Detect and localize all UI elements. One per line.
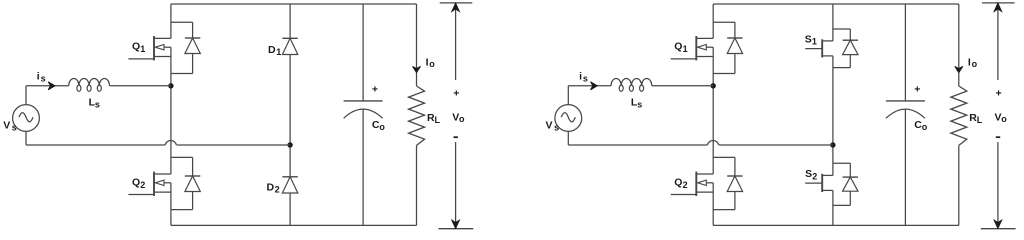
svg-text:2: 2 (275, 185, 280, 195)
svg-text:L: L (435, 115, 441, 125)
svg-text:S: S (805, 33, 812, 45)
svg-text:D: D (268, 44, 276, 56)
svg-text:Q: Q (132, 177, 140, 189)
svg-text:i: i (37, 70, 40, 82)
svg-text:2: 2 (812, 171, 817, 181)
svg-text:s: s (95, 100, 100, 110)
svg-text:+: + (453, 88, 459, 100)
svg-text:+: + (372, 84, 378, 96)
svg-text:1: 1 (276, 47, 281, 57)
svg-text:S: S (805, 168, 812, 180)
svg-text:Q: Q (674, 177, 682, 189)
svg-text:V: V (3, 120, 10, 132)
svg-text:o: o (1001, 114, 1007, 124)
svg-text:L: L (977, 115, 983, 125)
svg-text:V: V (546, 120, 553, 132)
svg-text:Q: Q (132, 41, 140, 53)
svg-text:D: D (267, 182, 275, 194)
svg-text:s: s (41, 74, 46, 84)
svg-text:2: 2 (683, 180, 688, 190)
svg-text:s: s (637, 100, 642, 110)
svg-text:o: o (429, 59, 435, 69)
svg-text:o: o (922, 122, 928, 132)
svg-text:+: + (996, 88, 1002, 100)
svg-text:2: 2 (140, 180, 145, 190)
svg-text:+: + (914, 84, 920, 96)
svg-text:s: s (554, 123, 559, 133)
svg-text:1: 1 (812, 37, 817, 47)
svg-text:o: o (459, 114, 465, 124)
svg-text:o: o (972, 59, 978, 69)
svg-text:1: 1 (683, 44, 688, 54)
svg-text:o: o (379, 122, 385, 132)
svg-text:Q: Q (674, 41, 682, 53)
svg-text:I: I (968, 56, 971, 68)
svg-text:s: s (12, 123, 17, 133)
svg-text:i: i (579, 70, 582, 82)
svg-text:s: s (583, 74, 588, 84)
svg-text:1: 1 (140, 44, 145, 54)
svg-text:I: I (426, 56, 429, 68)
